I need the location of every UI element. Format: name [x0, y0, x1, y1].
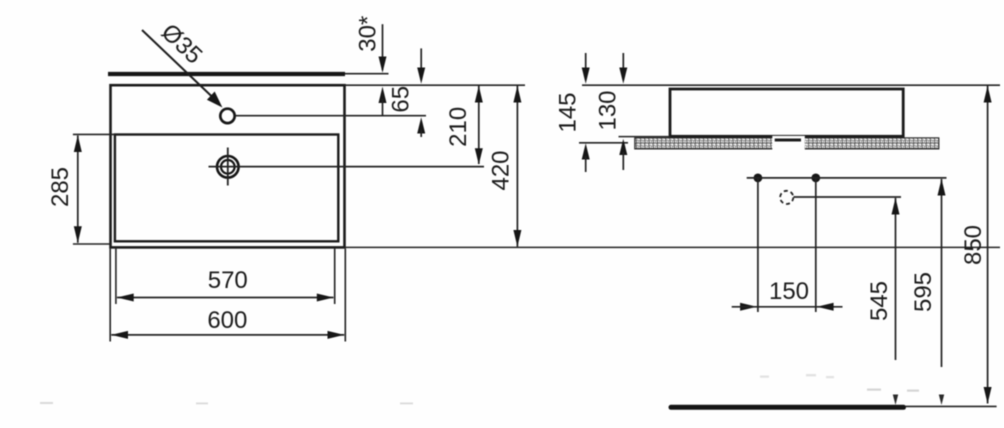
dim 210 line — [478, 86, 480, 164]
back edge thin extension to 30* dim — [345, 73, 389, 75]
top edge extension line to 420 dim — [345, 84, 526, 86]
dim 145 bottom extension line — [579, 142, 628, 144]
dim 130 bottom tail — [622, 152, 624, 170]
mounting holes centerline — [747, 177, 947, 179]
dim 30* up arrow below — [379, 87, 387, 103]
bracket gap white cutout — [772, 136, 805, 151]
dim 150 left tail — [732, 306, 843, 308]
dim 595 up arrow — [938, 179, 946, 196]
dim 600 left arrow — [111, 331, 128, 339]
svg-text:210: 210 — [445, 107, 472, 147]
dim 285 up arrow — [74, 135, 82, 152]
svg-text:150: 150 — [769, 278, 809, 305]
basin profile rect — [670, 89, 903, 136]
wall bracket hatched strip — [635, 138, 939, 149]
drain outer circle — [217, 156, 239, 178]
dim 850 up arrow — [984, 86, 992, 103]
dim 150 right arrow — [817, 303, 834, 311]
watermark smudges — [40, 402, 413, 404]
svg-text:65: 65 — [387, 86, 414, 113]
svg-text:145: 145 — [555, 92, 582, 132]
dim 285 down arrow — [74, 226, 82, 243]
faucet hole centerline to 65 dim — [235, 115, 426, 117]
basin outer rect — [111, 85, 345, 247]
bracket bar in gap — [775, 139, 801, 142]
dim 570 left extension line — [115, 249, 117, 304]
dim 570 left arrow — [117, 294, 134, 302]
dim 850 down arrow — [984, 387, 992, 404]
dim 595 line — [941, 179, 943, 367]
svg-text:420: 420 — [488, 150, 515, 190]
svg-text:600: 600 — [207, 307, 247, 334]
svg-text:130: 130 — [595, 90, 622, 130]
dim 420 line — [516, 86, 518, 247]
leader arrowhead — [207, 92, 223, 108]
dim 65 upper tail — [420, 48, 422, 80]
dim 600 right arrow — [328, 331, 345, 339]
dim 145 up arrow — [582, 143, 590, 159]
dim 150 left arrow — [740, 303, 757, 311]
dim 65 lower tail — [420, 130, 422, 137]
dim 30* tail below — [382, 99, 384, 115]
dim 210 down arrow — [475, 148, 483, 164]
dim 285 line — [77, 136, 79, 243]
leader line O35 — [142, 30, 215, 100]
drain inner circle — [221, 160, 235, 174]
dim 545 line — [895, 198, 897, 360]
svg-text:595: 595 — [910, 272, 937, 312]
dim 210 up arrow — [475, 86, 483, 103]
dim 285 bottom extension line — [73, 243, 111, 245]
dim 30* down arrow — [379, 57, 387, 73]
svg-text:570: 570 — [208, 267, 248, 294]
dim 570 right arrow — [317, 294, 334, 302]
basin back edge thick line — [108, 72, 345, 76]
dim 145 top arrow tail — [585, 53, 587, 80]
basin inner rect — [115, 135, 338, 242]
svg-text:850: 850 — [960, 225, 987, 265]
dim 145 bottom tail — [585, 156, 587, 172]
drain hole dashed circle — [780, 191, 793, 204]
bottom edge extension line across page — [345, 246, 1001, 248]
basin bottom extension line left — [619, 136, 671, 138]
mounting hole right extension line — [815, 178, 817, 312]
dim 850 line — [987, 86, 989, 404]
drain hole centerline — [794, 196, 902, 198]
dim 285 top extension line — [73, 133, 115, 135]
top reference extension line — [582, 84, 1000, 86]
dim 570 line — [117, 297, 334, 299]
dim 600 right extension line — [344, 249, 346, 342]
dim 600 left extension line — [109, 249, 111, 342]
floor thin line — [905, 405, 997, 407]
dim 130 down arrow — [619, 68, 627, 84]
floor thick line — [671, 405, 904, 410]
svg-text:30*: 30* — [355, 16, 382, 52]
faucet hole circle — [220, 109, 234, 123]
dim 595 bottom arrow remnant — [939, 395, 944, 406]
dim 65 up arrow — [417, 117, 425, 133]
dim 545 bottom arrow remnant — [893, 395, 898, 406]
svg-text:285: 285 — [47, 167, 74, 207]
drain centerline to 210/420 dims — [209, 166, 485, 168]
dim 420 up arrow — [513, 86, 521, 103]
dim 30* line above — [382, 24, 384, 70]
dim 570 right extension line — [334, 249, 336, 304]
dim 545 up arrow — [892, 198, 900, 215]
drain vertical crosshair — [227, 148, 229, 186]
dim 420 down arrow — [513, 230, 521, 247]
dim 145 down arrow — [582, 68, 590, 84]
dim 130 top arrow tail — [622, 53, 624, 80]
svg-text:545: 545 — [866, 281, 893, 321]
mounting hole dot left — [754, 174, 763, 183]
mounting hole dot right — [811, 174, 820, 183]
dim 65 down arrow — [417, 68, 425, 84]
dim 130 up arrow — [619, 139, 627, 155]
mounting hole left extension line — [757, 178, 759, 312]
dim 600 line — [111, 334, 344, 336]
svg-text:Ø35: Ø35 — [156, 19, 207, 70]
